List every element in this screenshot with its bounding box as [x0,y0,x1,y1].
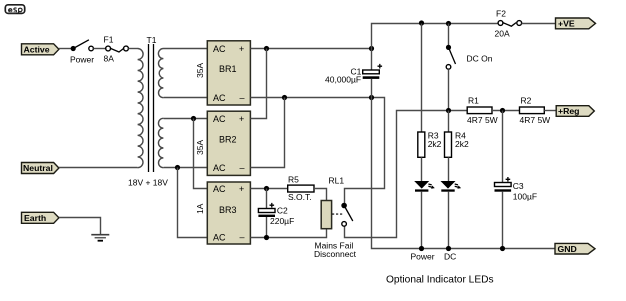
svg-text:F1: F1 [104,35,114,45]
svg-text:+: + [239,114,244,124]
wire secondary2 top to BR2 [164,118,208,120]
capacitor C3 100uF [495,111,538,249]
wire C1 bottom to GND rail [372,79,556,249]
svg-text:1A: 1A [195,203,205,214]
node dot BR1+ / C1 top [369,46,374,51]
node dot BR1- / BR2- riser [282,95,287,100]
resistor R4 2k2 [445,111,469,158]
svg-text:+: + [239,44,244,54]
svg-text:4R7 5W: 4R7 5W [520,115,551,125]
capacitor C1 40,000uF [325,64,382,85]
svg-text:–: – [240,232,245,242]
ground [91,235,109,241]
node dot BR3- / C2 bottom [264,235,269,240]
wire Earth to ground [59,218,101,235]
capacitor C2 220uF [258,189,294,238]
svg-text:4R7 5W: 4R7 5W [467,115,498,125]
svg-text:R2: R2 [521,96,532,106]
wire BR1 minus row [250,98,384,204]
node dot top rail / R3 column [419,20,424,25]
svg-text:DC On: DC On [467,54,493,64]
resistor R3 2k2 [418,24,442,158]
wire top rail +VE [372,24,499,71]
bridge rectifier BR1 [195,41,250,105]
switch Power [70,40,94,65]
node Earth input tag [22,212,59,223]
LED DC [441,157,462,261]
node dot BR1- / C1 bottom [369,95,374,100]
relay RL1 contact [341,203,352,227]
wire secondary1 bottom to BR1 [164,97,208,99]
svg-text:Power: Power [70,55,94,65]
svg-text:AC: AC [213,163,226,173]
node Active input tag [22,44,59,55]
wire secondary1 top to BR1 [164,48,208,50]
svg-text:Optional Indicator LEDs: Optional Indicator LEDs [386,275,494,286]
bridge rectifier BR3 [195,182,250,244]
node dot BR3+ / C2 top [264,186,269,191]
node junction dot secondary2 top [191,116,196,121]
svg-text:F2: F2 [496,9,506,19]
svg-text:C2: C2 [277,206,288,216]
fuse F2 20A [495,9,522,39]
svg-text:Disconnect: Disconnect [314,249,357,259]
wire F2 to +VE tag [522,23,556,25]
wire BR2 plus riser [250,49,266,119]
svg-text:GND: GND [558,244,577,254]
svg-text:DC: DC [444,252,456,262]
node junction dot secondary2 bottom [175,165,180,170]
ESP logo [5,5,24,14]
node dot top rail / DC On column [446,21,451,26]
svg-text:2k2: 2k2 [455,139,469,149]
svg-text:40,000µF: 40,000µF [325,75,361,85]
svg-text:Active: Active [24,44,50,54]
svg-text:100µF: 100µF [513,192,537,202]
transformer T1 [128,35,168,188]
svg-text:AC: AC [213,184,226,194]
wire DC On to +Reg row [448,69,450,110]
svg-text:20A: 20A [495,29,510,39]
svg-text:Neutral: Neutral [23,163,53,173]
node +VE output tag [556,18,596,29]
wire Neutral to T1 primary [59,167,138,169]
svg-text:8A: 8A [104,54,115,64]
wire BR3+ row [250,188,287,190]
node dot GND rail / C3 [500,246,505,251]
node dot R1-R2 / C3 column [500,108,505,113]
node dot GND rail / Power LED [419,246,424,251]
svg-text:Power: Power [411,252,435,262]
svg-text:18V + 18V: 18V + 18V [128,178,168,188]
svg-text:AC: AC [213,44,226,54]
node dot BR1+ / BR2+ riser [264,46,269,51]
svg-text:RL1: RL1 [329,176,345,186]
svg-text:Earth: Earth [24,213,46,223]
svg-text:35A: 35A [195,63,205,78]
svg-text:–: – [240,92,245,102]
wire BR2 minus riser [250,98,284,168]
svg-text:–: – [240,162,245,172]
bridge rectifier BR2 [195,111,250,175]
svg-text:+Reg: +Reg [558,106,580,116]
svg-text:35A: 35A [195,140,205,155]
resistor R1 4R7 5W [467,96,498,126]
wire secondary2 bottom to BR2 [164,167,208,169]
wire R1 to R2 [492,110,520,112]
svg-text:R1: R1 [468,96,479,106]
resistor R5 S.O.T. [288,174,314,202]
wire junction to BR3 AC bottom [178,168,208,238]
wire R5 to relay coil [314,189,327,201]
node dot GND rail / DC LED [446,246,451,251]
svg-text:BR1: BR1 [219,64,237,74]
node Neutral input tag [22,163,59,174]
node dot +Reg row / R4 column [446,108,451,113]
relay RL1 coil [321,176,344,229]
node GND output tag [555,243,595,254]
T1 secondary winding 2 [158,118,163,167]
svg-text:T1: T1 [147,35,157,45]
svg-text:AC: AC [213,93,226,103]
svg-text:+VE: +VE [558,19,575,29]
wire BR1 plus output to C1 column [250,48,371,50]
wire +Reg row left + descender to relay contact [345,111,468,238]
wire R2 to +Reg tag [544,110,556,112]
node +Reg output tag [556,106,594,117]
wire junction to BR3 AC top [194,119,208,189]
svg-text:2k2: 2k2 [428,139,442,149]
svg-text:BR2: BR2 [219,135,237,145]
svg-text:BR3: BR3 [219,205,237,215]
svg-text:+: + [239,184,244,194]
svg-text:AC: AC [213,114,226,124]
wire Active to Power switch [59,48,71,50]
T1 secondary winding 1 [158,48,163,97]
svg-text:R5: R5 [288,174,299,184]
svg-text:AC: AC [213,232,226,242]
T1 core [148,44,150,172]
svg-text:C3: C3 [513,181,524,191]
LED Power [411,157,435,261]
svg-text:S.O.T.: S.O.T. [288,192,312,202]
wire Power switch to F1 [93,48,105,50]
wire F1 to T1 primary [128,48,137,50]
fuse F1 8A [104,35,129,64]
resistor R2 4R7 5W [520,96,551,126]
T1 primary winding [138,48,144,167]
wire BR3- row to relay coil bottom [250,229,326,238]
svg-text:220µF: 220µF [270,216,294,226]
switch DC On [446,24,493,70]
